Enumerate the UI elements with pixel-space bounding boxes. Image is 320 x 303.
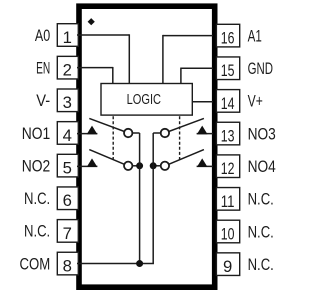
svg-text:NO3: NO3: [248, 124, 276, 143]
svg-text:A1: A1: [248, 26, 262, 45]
svg-text:10: 10: [221, 224, 235, 243]
svg-text:3: 3: [63, 93, 72, 112]
svg-text:GND: GND: [248, 59, 273, 78]
svg-text:14: 14: [221, 94, 235, 113]
svg-text:7: 7: [63, 224, 72, 243]
svg-text:11: 11: [221, 192, 235, 211]
svg-text:V+: V+: [248, 92, 263, 111]
svg-text:12: 12: [221, 159, 235, 178]
svg-text:6: 6: [63, 191, 72, 210]
svg-text:NO2: NO2: [22, 156, 51, 175]
svg-text:NO4: NO4: [248, 157, 276, 176]
svg-text:4: 4: [63, 126, 72, 145]
svg-text:16: 16: [221, 29, 235, 48]
svg-text:N.C.: N.C.: [24, 189, 50, 208]
svg-text:EN: EN: [36, 58, 50, 77]
svg-text:1: 1: [63, 28, 72, 47]
svg-text:N.C.: N.C.: [248, 190, 274, 209]
svg-text:LOGIC: LOGIC: [127, 92, 162, 108]
svg-text:15: 15: [221, 61, 235, 80]
svg-text:2: 2: [63, 61, 72, 80]
svg-text:V-: V-: [36, 91, 50, 110]
svg-text:9: 9: [223, 257, 232, 276]
svg-text:COM: COM: [20, 254, 51, 273]
svg-text:A0: A0: [35, 26, 50, 45]
svg-text:8: 8: [63, 256, 72, 275]
svg-text:13: 13: [221, 126, 235, 145]
svg-text:N.C.: N.C.: [24, 222, 50, 241]
svg-text:N.C.: N.C.: [248, 255, 274, 274]
svg-text:NO1: NO1: [22, 124, 51, 143]
svg-text:5: 5: [63, 159, 72, 178]
svg-text:N.C.: N.C.: [248, 222, 274, 241]
